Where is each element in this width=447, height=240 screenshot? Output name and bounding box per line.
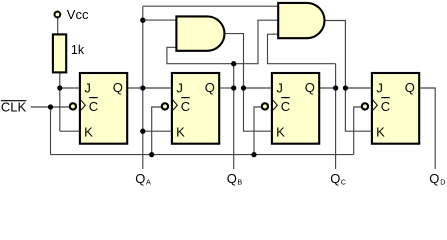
- node QA gate tap: [140, 18, 145, 23]
- flip-flop FF1 clock bubble: [70, 103, 76, 109]
- svg-text:Q: Q: [135, 171, 145, 186]
- svg-text:C: C: [281, 99, 290, 114]
- svg-text:C: C: [381, 99, 390, 114]
- svg-text:C: C: [341, 177, 346, 186]
- wire QB riser vertical: [233, 64, 235, 169]
- Vcc terminal: [55, 12, 61, 18]
- wire node to FF1 J input: [60, 87, 79, 89]
- wire QA: FF1 Q to FF2 J: [127, 87, 171, 89]
- flip-flop FF4 clock bubble: [362, 103, 368, 109]
- svg-text:J: J: [84, 81, 91, 96]
- label QD: [429, 171, 445, 186]
- svg-text:B: B: [237, 177, 242, 186]
- AND gate U1: [176, 16, 224, 50]
- flip-flop FF4 box: [372, 73, 419, 144]
- flip-flop FF3 clock triangle: [273, 100, 277, 110]
- node CLK tap FF3: [251, 152, 256, 157]
- wire AND2 output to FF4 J and K: [324, 21, 371, 132]
- wire node down past clock to K1 level: [59, 88, 61, 131]
- flip-flop FF3 clock bubble: [262, 103, 268, 109]
- svg-text:Q: Q: [205, 80, 215, 95]
- flip-flop FF2 box: [172, 73, 219, 144]
- wire QC staircase to AND2 input 3: [268, 34, 336, 64]
- wire to FF1 K input: [60, 130, 79, 132]
- svg-text:D: D: [440, 177, 445, 186]
- node CLK junction: [48, 104, 53, 109]
- svg-text:A: A: [146, 177, 151, 186]
- label QB: [227, 171, 243, 186]
- wire AND2 output branch to FF4 J: [345, 87, 371, 89]
- svg-text:Q: Q: [227, 171, 237, 186]
- wire CLK input to FF1 clock: [31, 106, 69, 108]
- AND gate U2: [278, 3, 324, 38]
- wire CLK tap up to FF3 clock: [254, 107, 261, 155]
- flip-flop FF3 labels: [276, 80, 315, 139]
- svg-text:C: C: [89, 99, 98, 114]
- svg-text:C: C: [181, 99, 190, 114]
- flip-flop FF2 clock triangle: [173, 100, 177, 110]
- wire QA riser vertical: [142, 6, 144, 169]
- svg-text:Q: Q: [405, 80, 415, 95]
- svg-text:1k: 1k: [71, 43, 85, 57]
- svg-text:K: K: [84, 124, 93, 139]
- wire QB staircase to AND1 input 2 and AND2 input 2: [167, 20, 278, 64]
- svg-text:Q: Q: [429, 171, 439, 186]
- svg-text:Q: Q: [305, 80, 315, 95]
- label CLK with overline: [1, 100, 27, 115]
- wire QC riser vertical: [335, 64, 337, 169]
- svg-text:K: K: [176, 124, 185, 139]
- node QB staircase junction: [231, 61, 236, 66]
- wire CLK down to bottom rail: [50, 107, 52, 155]
- wire CLK tap up to FF2 clock: [152, 107, 161, 155]
- wire AND1 output to FF3 J and K: [224, 34, 271, 132]
- svg-text:CLK: CLK: [1, 100, 27, 115]
- wire QC: FF3 Q to riser: [319, 87, 335, 89]
- wire CLK tap up to FF4 clock: [354, 107, 361, 155]
- node CLK tap FF2: [149, 152, 154, 157]
- svg-text:J: J: [376, 81, 383, 96]
- flip-flop FF3 box: [272, 73, 319, 144]
- svg-text:J: J: [176, 81, 183, 96]
- resistor R1 1k: [53, 34, 66, 72]
- node AND2 out to FF4 J: [343, 85, 348, 90]
- label QC: [330, 171, 346, 186]
- wire QA to FF2 K input: [143, 130, 171, 132]
- flip-flop FF1 box: [80, 73, 127, 144]
- flip-flop FF2 labels: [176, 80, 215, 139]
- wire Vcc to resistor: [57, 18, 59, 34]
- node QC main junction: [333, 85, 338, 90]
- node AND1 out to FF3 J: [241, 85, 246, 90]
- flip-flop FF1 labels: [84, 80, 123, 139]
- wire resistor to node J1: [59, 73, 61, 88]
- svg-text:K: K: [376, 124, 385, 139]
- wire QA top line to AND2 input 1: [143, 5, 277, 7]
- wire QA to AND1 input 1: [143, 19, 177, 21]
- flip-flop FF2 clock bubble: [162, 103, 168, 109]
- node QA K2 tap: [140, 129, 145, 134]
- svg-text:Q: Q: [113, 80, 123, 95]
- svg-text:K: K: [276, 124, 285, 139]
- node QA main junction: [140, 85, 145, 90]
- wire AND1 output branch to FF3 J: [244, 87, 271, 89]
- flip-flop FF4 labels: [376, 80, 415, 139]
- flip-flop FF4 clock triangle: [373, 100, 377, 110]
- wire QD: FF4 Q output down to label: [419, 88, 435, 169]
- node QB main junction: [231, 85, 236, 90]
- svg-text:Vcc: Vcc: [67, 7, 89, 22]
- wire CLK bottom rail: [51, 154, 354, 156]
- svg-text:J: J: [276, 81, 283, 96]
- node Vcc/J1/K1 junction: [57, 85, 62, 90]
- svg-text:Q: Q: [330, 171, 340, 186]
- label QA: [135, 171, 151, 186]
- flip-flop FF1 clock triangle: [81, 100, 85, 110]
- wire QB: FF2 Q to riser: [219, 87, 234, 89]
